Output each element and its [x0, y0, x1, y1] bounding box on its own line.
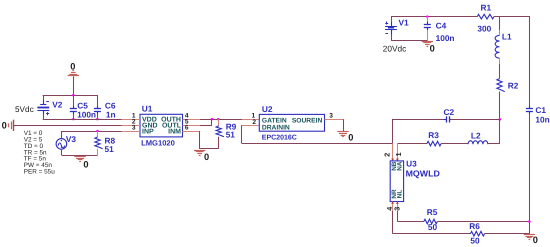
svg-text:3: 3 — [132, 125, 136, 132]
capacitor C2 — [443, 116, 452, 122]
svg-text:MQWLD: MQWLD — [406, 169, 440, 179]
U1 pin name INP — [142, 128, 154, 135]
junction R2/C2 node — [499, 118, 502, 121]
U3 pin 2 stub (NB) — [391, 144, 394, 161]
ground above C5 (net 0) — [68, 71, 79, 96]
junction C6 bottom — [96, 118, 99, 121]
svg-text:C4: C4 — [436, 20, 447, 30]
svg-text:V3: V3 — [66, 134, 77, 144]
svg-text:NL: NL — [397, 190, 404, 199]
inductor L1 — [495, 30, 499, 64]
wire SOUREIN to ground — [343, 119, 345, 131]
U1 pin 5 stub — [183, 125, 200, 127]
svg-text:2: 2 — [382, 153, 391, 157]
label C6 — [105, 101, 116, 111]
svg-text:L2: L2 — [471, 131, 481, 141]
svg-text:20Vdc: 20Vdc — [383, 43, 407, 53]
wire V3/R8 to U1 INP pin3 — [62, 131, 122, 133]
label 20Vdc — [383, 43, 407, 53]
svg-text:2: 2 — [252, 119, 256, 126]
value 51 (R9) — [226, 130, 236, 140]
svg-text:0: 0 — [533, 235, 538, 245]
svg-text:51: 51 — [105, 144, 115, 154]
U1 pin 1 stub — [122, 119, 141, 121]
U3 pin name NB — [391, 161, 398, 171]
U1 pin 4 stub — [183, 119, 200, 121]
label C4 — [436, 20, 447, 30]
U2 pin number 1 — [252, 113, 256, 120]
ground 0 label under V3 row — [83, 159, 88, 169]
value 50 (R6) — [470, 235, 480, 245]
svg-text:50: 50 — [470, 235, 480, 245]
resistor R3 — [427, 141, 441, 146]
svg-text:GATEIN: GATEIN — [262, 117, 287, 124]
wire OUTL tie — [200, 119, 212, 126]
svg-text:V2: V2 — [52, 100, 63, 110]
svg-text:1n: 1n — [106, 109, 116, 119]
capacitor C1 — [526, 106, 533, 115]
svg-text:1: 1 — [394, 152, 403, 156]
value 1n (C6) — [106, 109, 116, 119]
U2 pin number 2 — [252, 119, 256, 126]
wire DRAININ down and right to U3 — [242, 125, 393, 143]
U2 pin name SOUREIN — [292, 117, 323, 124]
U1 pin name INM — [168, 128, 181, 135]
wire node down to L2 row — [499, 119, 501, 143]
label R3 — [428, 130, 439, 140]
U3 pin 1 stub (NA) — [396, 144, 399, 161]
U1 pin number 2 — [132, 119, 136, 126]
U3 pin name NL — [397, 190, 404, 199]
label V2 — [52, 100, 63, 110]
U2 pin name DRAININ — [262, 125, 290, 132]
svg-text:INP: INP — [142, 128, 154, 135]
U3 pin number 3 — [392, 207, 401, 211]
U1 pin number 3 — [132, 125, 136, 132]
wire V3 bottom row — [62, 155, 98, 157]
V3 parameter text block — [24, 130, 56, 176]
U1 pin 2 stub — [122, 125, 141, 127]
resistor R6 — [470, 231, 484, 236]
ground at right rail bottom (net 0) — [524, 235, 535, 240]
junction C5 bottom — [72, 118, 75, 121]
value 10n (C1) — [535, 115, 549, 125]
dc source V2 — [37, 100, 49, 115]
label R9 — [226, 121, 237, 131]
label C5 — [77, 101, 88, 111]
svg-text:0: 0 — [348, 133, 353, 143]
svg-text:R3: R3 — [428, 130, 439, 140]
resistor R5 — [424, 219, 438, 224]
U3 pin number 1 — [394, 152, 403, 156]
label R8 — [105, 136, 116, 146]
junction R8 top — [96, 130, 99, 133]
U2 pin number 3 — [329, 112, 333, 119]
wire R3 to L2 — [441, 143, 468, 145]
capacitor C6 — [94, 95, 101, 119]
laser diode U3 box — [390, 161, 403, 202]
label L1 — [502, 32, 512, 42]
svg-text:INM: INM — [168, 128, 181, 135]
svg-text:C1: C1 — [535, 105, 546, 115]
U1 pin number 6 — [185, 125, 189, 132]
junction C5 top — [72, 94, 75, 97]
ground under U2 pin3 (net 0) — [337, 132, 348, 137]
wire NR to R6 row — [393, 211, 471, 234]
value 300 (R1) — [477, 24, 491, 34]
wire bus to L1 — [499, 17, 501, 30]
U3 pin number 2 — [382, 153, 391, 157]
U2 pin 3 stub — [325, 119, 344, 121]
label U2 — [262, 104, 273, 114]
svg-text:300: 300 — [477, 24, 491, 34]
svg-text:50: 50 — [428, 222, 438, 232]
label LMG1020 — [141, 139, 175, 148]
gan fet U2 box — [259, 114, 324, 131]
U2 pin 1 stub — [242, 119, 259, 121]
svg-text:51: 51 — [226, 130, 236, 140]
U1 pin number 1 — [132, 113, 136, 120]
U3 pin number 4 — [385, 207, 394, 211]
wire right rail lower — [529, 114, 531, 234]
svg-text:R2: R2 — [508, 80, 519, 90]
svg-text:PER = 55u: PER = 55u — [24, 169, 56, 176]
U3 pin 4 stub (NR) — [391, 202, 394, 211]
wire net0 to U1 GND pin2 — [14, 125, 122, 127]
label R6 — [469, 221, 480, 231]
resistor R2 — [497, 79, 505, 95]
wire VDD rail to U1 pin1 — [43, 119, 122, 121]
ground under V3 row (net 0) — [74, 157, 85, 162]
op-driver U1 box — [140, 114, 183, 137]
wire U3 riser to C2 — [393, 119, 445, 144]
svg-text:0: 0 — [430, 44, 435, 54]
wire top bus V2/C5/C6 — [43, 95, 98, 97]
U3 pin name NR — [391, 189, 398, 199]
wire L1 to R2 — [499, 64, 501, 79]
svg-text:100n: 100n — [77, 109, 96, 119]
label L2 — [471, 131, 481, 141]
sine source V3 — [56, 131, 67, 155]
wire INM down — [200, 131, 219, 149]
value 100n (C5) — [77, 109, 96, 119]
junction R9 top — [217, 118, 220, 121]
label C1 — [535, 105, 546, 115]
junction C4 top — [426, 15, 429, 18]
svg-text:U2: U2 — [262, 104, 273, 114]
label EPC2016C — [262, 134, 297, 141]
svg-text:EPC2016C: EPC2016C — [262, 134, 297, 141]
svg-text:L1: L1 — [502, 32, 512, 42]
junction OUTL tie — [211, 118, 214, 121]
wire V2 bottom — [43, 115, 45, 120]
ground 0 label under U2 pin3 — [348, 133, 353, 143]
capacitor C4 — [424, 17, 431, 41]
U2 pin 2 stub — [242, 125, 259, 127]
label C2 — [444, 107, 455, 117]
wire right rail upper — [529, 16, 531, 106]
U1 pin number 4 — [185, 113, 189, 120]
wire U3 NA to R3 — [397, 143, 427, 145]
wire R1 to right rail — [494, 16, 530, 18]
svg-text:U3: U3 — [406, 159, 417, 169]
U1 pin name GND — [142, 123, 158, 130]
U1 pin 3 stub — [122, 131, 141, 133]
svg-text:NA: NA — [397, 161, 404, 171]
wire top bus V1 to R1 — [391, 16, 477, 18]
label U3 — [406, 159, 417, 169]
svg-text:5Vdc: 5Vdc — [15, 105, 34, 114]
svg-text:0: 0 — [2, 121, 7, 131]
U3 pin name NA — [397, 161, 404, 171]
ground 0 label bottom right — [533, 235, 538, 245]
svg-text:100n: 100n — [436, 33, 455, 43]
label MQWLD — [406, 169, 440, 179]
label R2 — [508, 80, 519, 90]
U1 pin number 5 — [185, 119, 189, 126]
svg-text:10n: 10n — [535, 115, 549, 125]
svg-text:3: 3 — [329, 112, 333, 119]
value 100n (C4) — [436, 33, 455, 43]
svg-text:0: 0 — [83, 159, 88, 169]
resistor R1 — [477, 14, 494, 19]
U1 pin name OUTL — [162, 123, 182, 130]
svg-text:0: 0 — [204, 152, 209, 162]
svg-text:3: 3 — [392, 207, 401, 211]
svg-text:V1: V1 — [399, 18, 410, 28]
svg-text:DRAININ: DRAININ — [262, 125, 290, 132]
U1 pin name OUTH — [161, 117, 181, 124]
svg-text:R6: R6 — [469, 221, 480, 231]
label U1 — [142, 103, 153, 113]
capacitor C5 — [70, 95, 77, 119]
U2 pin name GATEIN — [262, 117, 287, 124]
svg-text:C2: C2 — [444, 107, 455, 117]
U1 pin name VDD — [142, 117, 157, 124]
svg-text:R1: R1 — [481, 2, 492, 12]
label V1 — [399, 18, 410, 28]
wire V2 top to bus — [43, 95, 45, 101]
wire V1 top corner — [391, 17, 393, 22]
dc source V1 — [385, 22, 397, 35]
ground port 0 (left edge) — [9, 120, 14, 131]
value 50 (R5) — [428, 222, 438, 232]
label V3 — [66, 134, 77, 144]
wire V1 bottom to C4 ground — [391, 34, 427, 40]
wire R2 to C2 node — [499, 92, 501, 120]
value 51 (R8) — [105, 144, 115, 154]
label R5 — [427, 207, 438, 217]
label R1 — [481, 2, 492, 12]
svg-text:6: 6 — [185, 125, 189, 132]
wire R6 to right rail — [485, 233, 530, 235]
ground under INM/R9 (net 0) — [194, 151, 205, 156]
wire OUTH to R9/U2 — [200, 119, 242, 121]
svg-text:LMG1020: LMG1020 — [141, 139, 175, 148]
ground 0 label under C4 — [430, 44, 435, 54]
resistor R8 — [95, 131, 103, 155]
ground under C4 (net 0) — [422, 42, 433, 47]
ground 0 label above C5 — [70, 61, 75, 71]
wire C2 to R2 node — [451, 119, 500, 121]
svg-text:SOUREIN: SOUREIN — [292, 117, 323, 124]
wire NL to R5 row — [397, 211, 423, 222]
ground port 0 label — [2, 121, 7, 131]
label 5Vdc — [15, 105, 34, 114]
wire R5 to right rail — [437, 221, 529, 223]
ground 0 label under INM — [204, 152, 209, 162]
U3 pin 3 stub (NL) — [396, 202, 399, 211]
inductor L2 — [468, 141, 488, 145]
resistor R9 — [216, 119, 224, 149]
svg-text:R5: R5 — [427, 207, 438, 217]
U1 pin 6 stub — [183, 131, 200, 133]
wire L2 to node — [488, 143, 500, 145]
junction R5/right rail — [528, 220, 531, 223]
svg-text:0: 0 — [70, 61, 75, 71]
svg-text:U1: U1 — [142, 103, 153, 113]
